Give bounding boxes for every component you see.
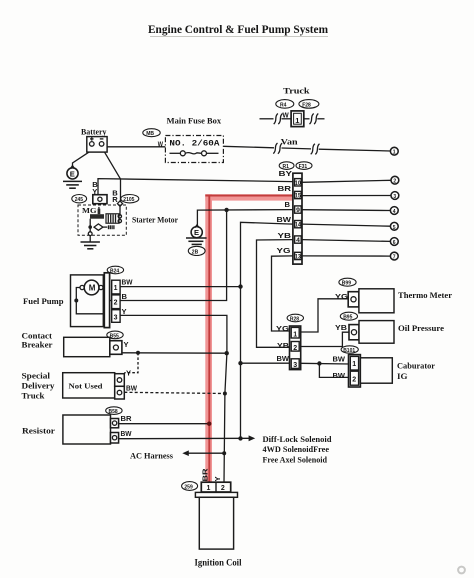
node junction BW fuel pump	[238, 284, 242, 288]
svg-text:Oil Pressure: Oil Pressure	[398, 324, 444, 333]
scan artifact dot	[458, 567, 465, 574]
svg-text:Contact: Contact	[22, 332, 53, 341]
node junction Y contact breaker	[136, 351, 140, 355]
connector oval 2105	[121, 195, 139, 204]
wire dashed BW not-used to Y trunk	[124, 392, 225, 393]
wire strip to node 3	[302, 195, 391, 197]
wire BW resistor to diff-lock arrow	[119, 435, 256, 441]
svg-text:BW: BW	[277, 215, 292, 224]
svg-text:Caburator: Caburator	[397, 362, 435, 371]
svg-text:2: 2	[293, 345, 297, 352]
wire B ground to strip cell 9	[197, 210, 293, 227]
oil pressure box	[359, 321, 394, 344]
svg-text:BW: BW	[126, 383, 138, 392]
connector oval 259	[182, 482, 198, 491]
svg-text:BW: BW	[122, 278, 134, 287]
svg-text:Y: Y	[124, 340, 129, 349]
svg-text:Main Fuse Box: Main Fuse Box	[167, 117, 221, 126]
svg-text:Special: Special	[22, 371, 51, 380]
svg-text:R28: R28	[290, 316, 299, 322]
svg-text:10: 10	[295, 180, 301, 187]
svg-text:W: W	[158, 140, 164, 149]
truck connector box pin 1	[291, 111, 304, 127]
svg-text:YG: YG	[276, 324, 289, 333]
svg-text:2: 2	[393, 179, 396, 185]
wire BR resistor to red trunk	[119, 423, 210, 425]
connector oval 2B	[188, 246, 205, 255]
label Contact Breaker	[22, 332, 54, 350]
wire strip to node 2	[302, 180, 391, 182]
starter motor U (dashed outline)	[78, 205, 126, 235]
connector oval B99	[339, 278, 356, 286]
truck W stub wire with breaks	[260, 111, 325, 125]
svg-text:5: 5	[393, 225, 396, 231]
ground E (mid)	[186, 225, 207, 245]
svg-text:R4: R4	[280, 102, 287, 108]
not used box	[63, 373, 125, 399]
wire fuel pump Y down (Y trunk)	[120, 315, 227, 483]
wire B28 BW to trunk	[241, 362, 292, 364]
node circle 4	[390, 207, 398, 215]
wire YB strip cell 4 down to B28 cell 2	[257, 240, 293, 348]
wire strip to node 6	[302, 240, 390, 242]
wire strip to node 5	[302, 224, 390, 226]
svg-text:BW: BW	[121, 429, 133, 438]
svg-text:Free Axel Solenoid: Free Axel Solenoid	[263, 455, 328, 464]
svg-text:M: M	[89, 284, 96, 293]
wire BR diamond into starter	[119, 206, 121, 216]
node junction BW trunk end	[238, 436, 242, 440]
svg-text:1: 1	[207, 485, 211, 492]
label Caburator IG	[397, 362, 435, 381]
wire BY starter to strip cell 10	[98, 179, 293, 195]
svg-text:15: 15	[295, 193, 301, 200]
fuse box NO. 2/60A	[165, 136, 223, 163]
fuel pump connector cells 1 2 3	[112, 280, 120, 322]
connector oval B55	[107, 331, 123, 339]
connector strip B28	[290, 326, 301, 370]
svg-text:3: 3	[393, 194, 396, 200]
svg-text:B58: B58	[109, 409, 118, 415]
node junction Y trunk	[225, 351, 229, 355]
svg-text:2: 2	[221, 485, 225, 492]
svg-text:B95: B95	[343, 315, 352, 321]
svg-text:1: 1	[114, 285, 118, 292]
wire AC harness arrow	[182, 450, 224, 456]
wire YG strip cell 13 down to B28 cell 1	[272, 256, 293, 331]
node circle 3	[391, 192, 399, 200]
svg-text:Resistor: Resistor	[22, 426, 56, 435]
connector box BY (single pin)	[93, 195, 107, 204]
node circle 5	[390, 222, 398, 230]
node junction dashed BW	[223, 392, 227, 396]
svg-text:3: 3	[114, 314, 118, 321]
svg-text:MG: MG	[82, 206, 97, 215]
connector oval F28	[299, 100, 319, 109]
wire branch to caburator 2	[319, 364, 350, 378]
svg-text:2: 2	[352, 376, 356, 383]
title: Engine Control & Fuel Pump System	[148, 22, 328, 37]
red highlight band BR circuit	[205, 194, 293, 483]
svg-text:Y: Y	[213, 476, 222, 481]
svg-text:BR: BR	[201, 468, 210, 482]
wire fuel pump BW to trunk	[120, 286, 240, 288]
svg-text:Breaker: Breaker	[22, 341, 54, 350]
ground E (battery)	[63, 166, 82, 189]
svg-text:E: E	[70, 169, 75, 178]
resistor R1	[63, 415, 119, 444]
main connector strip R1/F31	[293, 173, 302, 264]
thermo meter box	[359, 289, 394, 313]
svg-text:4WD SolenoidFree: 4WD SolenoidFree	[263, 445, 330, 454]
svg-text:Truck: Truck	[22, 391, 46, 400]
svg-text:Y: Y	[126, 369, 131, 378]
svg-text:2: 2	[114, 300, 118, 307]
node circle 6	[390, 238, 398, 246]
connector oval B24	[107, 266, 123, 274]
connector oval B28	[287, 314, 303, 322]
caburator IG box	[360, 358, 392, 383]
svg-text:Y: Y	[122, 307, 127, 316]
wire B28 cell3 to caburator 1	[301, 362, 350, 365]
svg-text:245: 245	[75, 197, 84, 203]
svg-text:2B: 2B	[192, 250, 199, 256]
svg-text:Ignition Coil: Ignition Coil	[195, 558, 242, 568]
svg-text:IG: IG	[397, 372, 408, 381]
wire W fuse box to Van line circle 1	[223, 143, 390, 154]
svg-text:1: 1	[293, 332, 297, 339]
wire strip to node 7	[302, 255, 390, 257]
svg-text:B: B	[285, 200, 291, 209]
wire BW strip cell 14 down (vertical trunk)	[241, 222, 293, 438]
thermo meter connector pin	[348, 292, 359, 307]
wire BR battery to starter	[105, 152, 121, 201]
connector oval R4	[276, 100, 294, 109]
svg-text:Thermo Meter: Thermo Meter	[398, 291, 452, 300]
node junction AC harness	[222, 451, 226, 455]
wire strip to node 4	[302, 209, 390, 212]
svg-text:MB: MB	[146, 131, 154, 137]
node circle 1	[390, 147, 398, 155]
svg-text:BR: BR	[278, 184, 292, 193]
svg-text:BW: BW	[333, 371, 346, 380]
oil pressure connector pin	[349, 325, 359, 340]
svg-text:2105: 2105	[123, 197, 134, 203]
connector oval B95	[340, 312, 357, 320]
svg-text:Battery: Battery	[81, 127, 107, 136]
svg-text:Starter Motor: Starter Motor	[132, 215, 178, 224]
connector oval MB	[143, 129, 160, 137]
svg-text:B: B	[122, 292, 128, 301]
wire B28 cell1 to thermo meter	[301, 299, 349, 332]
svg-text:13: 13	[295, 254, 301, 261]
svg-text:YB: YB	[278, 231, 292, 240]
wire battery to ground E	[73, 152, 90, 167]
node junction BW B28	[238, 361, 242, 365]
fuel pump M1	[71, 273, 110, 328]
svg-text:1: 1	[393, 150, 396, 156]
svg-text:1: 1	[295, 116, 299, 125]
svg-text:4: 4	[393, 209, 396, 215]
svg-text:Fuel Pump: Fuel Pump	[23, 297, 64, 306]
battery	[81, 127, 107, 152]
svg-text:BW: BW	[277, 354, 290, 363]
node junction BR	[207, 422, 211, 426]
svg-text:Engine Control & Fuel Pump Sys: Engine Control & Fuel Pump System	[148, 22, 328, 36]
connector oval R1	[279, 162, 294, 170]
connector oval B58	[106, 407, 122, 415]
svg-text:E: E	[194, 228, 199, 237]
connector oval B101	[341, 346, 358, 354]
svg-text:B24: B24	[110, 268, 119, 274]
ground (starter)	[81, 227, 100, 249]
svg-text:B99: B99	[342, 281, 351, 287]
svg-text:R: R	[112, 195, 118, 204]
svg-text:F31: F31	[299, 164, 308, 170]
label Special Delivery Truck	[22, 371, 55, 400]
svg-text:259: 259	[184, 484, 193, 490]
svg-text:BY: BY	[279, 169, 293, 178]
node junction B branch	[224, 208, 228, 212]
node circle 2	[391, 176, 399, 184]
svg-text:BR: BR	[121, 414, 133, 423]
svg-text:Delivery: Delivery	[22, 381, 55, 390]
wire B28 cell2 to oil pressure	[301, 332, 349, 346]
svg-text:F28: F28	[302, 102, 311, 108]
svg-text:NO. 2/60A: NO. 2/60A	[169, 139, 219, 148]
label Diff-Lock Solenoid	[263, 435, 333, 465]
svg-text:3: 3	[293, 362, 297, 369]
svg-text:YG: YG	[277, 246, 291, 255]
wire dashed Y to not-used	[124, 353, 138, 373]
svg-text:7: 7	[393, 255, 396, 261]
svg-text:Truck: Truck	[283, 87, 310, 96]
svg-text:YB: YB	[335, 323, 348, 332]
label BR (vertical, starter)	[112, 188, 118, 204]
svg-text:YG: YG	[335, 292, 348, 301]
svg-text:14: 14	[295, 222, 301, 229]
svg-text:4: 4	[296, 237, 300, 244]
svg-text:1: 1	[352, 361, 356, 368]
svg-text:B101: B101	[343, 348, 355, 354]
node circle 7	[390, 252, 398, 260]
wire Y contact breaker to Y trunk	[122, 352, 227, 354]
svg-text:BW: BW	[333, 354, 346, 363]
svg-text:6: 6	[393, 240, 396, 246]
node junction carb split	[317, 361, 321, 365]
wire W battery to fuse box	[107, 146, 165, 148]
connector diamond F105 on BR line	[117, 201, 122, 206]
svg-text:Not Used: Not Used	[69, 382, 104, 391]
svg-text:9: 9	[296, 207, 300, 214]
wire B branch down to fuel pump	[76, 210, 226, 301]
svg-text:W: W	[283, 111, 290, 120]
svg-text:B55: B55	[110, 333, 119, 339]
svg-text:Van: Van	[281, 138, 299, 147]
label BY (vertical, starter)	[92, 180, 98, 196]
svg-text:YB: YB	[277, 341, 290, 350]
connector oval F31	[296, 162, 312, 170]
connector oval 245	[72, 195, 87, 204]
ignition coil T1	[195, 482, 237, 549]
caburator connector cells 1 2	[349, 355, 361, 387]
svg-text:Diff-Lock Solenoid: Diff-Lock Solenoid	[263, 435, 333, 444]
contact breaker S1	[64, 337, 122, 356]
svg-text:AC Harness: AC Harness	[130, 451, 173, 460]
